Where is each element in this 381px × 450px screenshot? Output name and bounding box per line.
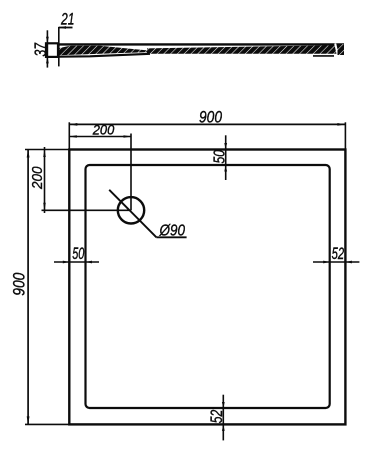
section hatched body [147,45,344,54]
dim 50 left arrow right [86,261,93,264]
svg-text:21: 21 [60,11,74,29]
svg-text:50: 50 [72,245,85,263]
svg-text:50: 50 [212,150,229,164]
dim 900 top arrow right [337,123,345,126]
plan outer square [69,150,345,425]
dim 52 right arrow right [345,261,352,264]
drain circle [118,197,144,223]
section right bottom edge line [313,55,334,57]
svg-text:52: 52 [208,410,226,424]
dim 200 top line [69,136,131,138]
dim 50 left line [54,261,99,263]
drain leader diagonal [109,190,156,238]
section bottom line [58,54,150,57]
dim 52 right line [313,261,359,263]
dimension 37 arrow bottom [46,57,49,64]
dim 200 left arrow top [43,150,46,158]
svg-text:900: 900 [11,272,29,296]
dim 900 top arrow left [69,123,77,126]
dim 900 top extension right [344,122,346,149]
svg-text:200: 200 [92,123,115,138]
dimension 21 leader horizontal [59,27,73,29]
dim 200 top arrow right [124,135,132,138]
dimension 37 line [46,30,48,67]
svg-text:900: 900 [199,108,223,126]
dim 52 bottom line [222,395,224,441]
drain leader underline [156,236,186,238]
dim 50 left arrow left [63,261,70,264]
section top surface line [46,43,344,45]
dim 52 bottom arrow lower [222,424,225,431]
dim 900 left extension top [25,149,69,151]
dim 52 right arrow left [323,261,330,264]
dim 900 top line [69,123,345,125]
svg-text:37: 37 [32,42,50,56]
drain center vertical extension [130,134,132,211]
svg-text:Ø90: Ø90 [159,222,185,239]
section right end cap [338,44,345,55]
svg-text:52: 52 [332,245,345,263]
dim 50 top arrow lower [224,165,227,172]
dim 900 left extension bottom [25,423,69,425]
drain center horizontal extension [42,209,132,211]
dim 900 top extension left [68,122,70,149]
section hatched wedge [59,46,163,56]
dim 50 top line [225,135,227,180]
dim 900 left line [27,150,29,425]
dim 900 left arrow bottom [27,416,30,424]
section right end gap [335,44,338,57]
dim 52 bottom arrow upper [222,402,225,409]
dimension 21 arrow [59,26,66,29]
dim 900 left arrow top [27,150,30,158]
svg-text:200: 200 [29,166,46,190]
dim 200 left line [44,147,46,213]
dim 200 left arrow bottom [43,203,46,211]
section left rim box [46,43,58,57]
plan inner square [86,165,330,408]
dimension 21 leader vertical [58,27,60,67]
dim 200 top arrow left [69,135,77,138]
dim 50 top arrow upper [224,143,227,150]
dimension 37 arrow top [46,37,49,44]
